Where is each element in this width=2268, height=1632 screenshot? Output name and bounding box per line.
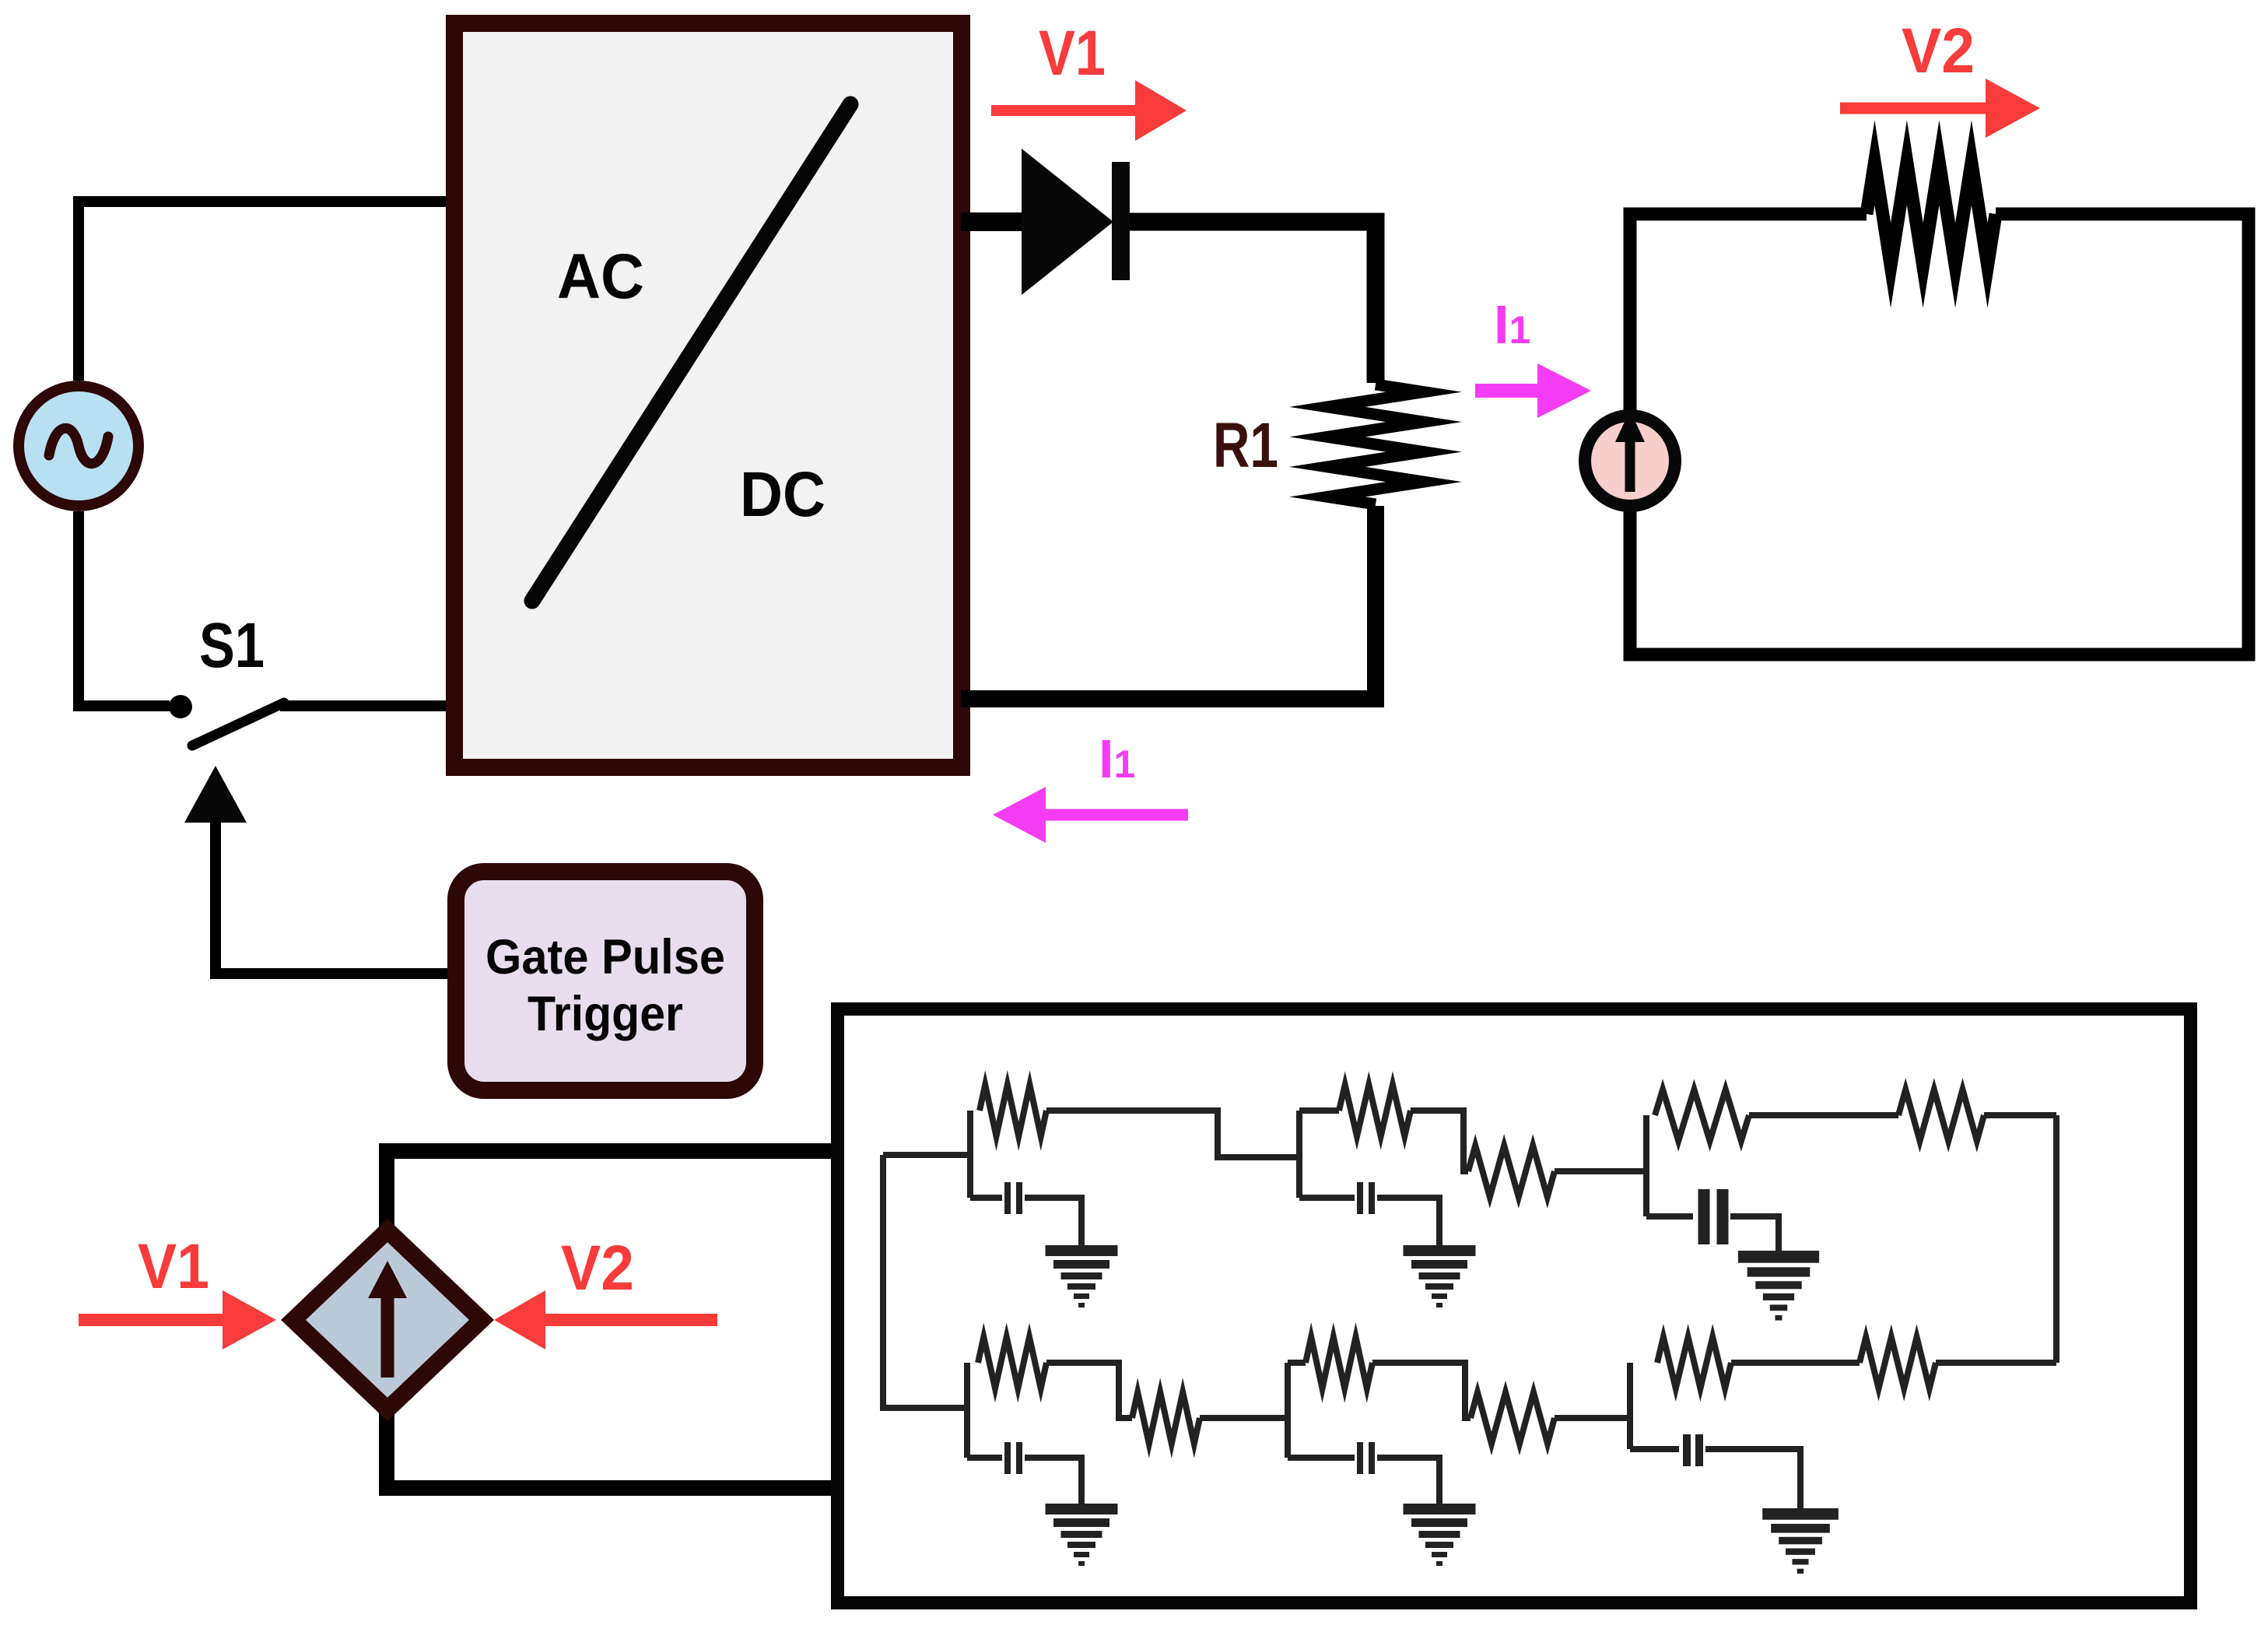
svg-text:V1: V1 — [1039, 18, 1106, 89]
wire RB1 to resistor RB12 — [1046, 1363, 1132, 1418]
wire from R1 bottom back to converter — [961, 506, 1376, 699]
wire RB23 to section B3 — [1555, 1415, 1630, 1421]
dependent current source CS1 (controlled by I1) — [1585, 416, 1675, 506]
node section B1 left — [964, 1363, 970, 1458]
node section A3 left — [1643, 1115, 1649, 1216]
resistor RA3 — [1655, 1090, 1749, 1141]
resistor RB2 — [1306, 1337, 1372, 1388]
wire RB3 to resistor RB3b — [1731, 1360, 1860, 1366]
wire from gate pulse trigger to switch — [216, 817, 455, 974]
ground GA3 — [1738, 1251, 1819, 1263]
wire RA1 to section A2 — [1046, 1111, 1299, 1157]
svg-text:V2: V2 — [561, 1233, 634, 1304]
wire right loop (top-left segment) — [1630, 214, 1867, 410]
svg-text:I1: I1 — [1099, 728, 1135, 789]
svg-text:Gate Pulse: Gate Pulse — [485, 930, 725, 984]
wire RA3 to resistor RA3b — [1749, 1112, 1898, 1118]
wire RB2 to resistor RB23 — [1372, 1363, 1471, 1418]
wire right loop (right + bottom) — [1630, 214, 2249, 655]
ground GB3 — [1762, 1508, 1839, 1520]
resistor RA1 — [980, 1085, 1046, 1136]
wire from dependent source bottom to RC network block — [387, 1401, 842, 1488]
node section B2 left — [1285, 1363, 1291, 1458]
resistor RA2 — [1339, 1085, 1411, 1136]
wire from AC source bottom to switch — [79, 511, 170, 706]
capacitor CA2 — [1299, 1195, 1355, 1201]
dependent source B1 (diamond) — [293, 1230, 482, 1409]
wire from converter DC output to diode anode — [961, 212, 1024, 231]
arrow V2 into dependent source — [541, 1314, 717, 1326]
resistor RB3 — [1657, 1337, 1731, 1388]
wire RB12 to section B2 — [1200, 1415, 1288, 1421]
capacitor CA1 — [970, 1195, 1002, 1201]
wire row-A rail to section A1 — [883, 1152, 970, 1158]
resistor RA3b — [1898, 1090, 1984, 1141]
arrow V1 into dependent source — [79, 1314, 227, 1326]
resistor RB12 (coupling) — [1132, 1392, 1200, 1444]
svg-text:DC: DC — [740, 459, 826, 530]
wire from AC source top to converter AC input — [79, 202, 455, 381]
wire RA23 to section A3 — [1555, 1168, 1646, 1174]
ground GA2 — [1404, 1245, 1476, 1256]
node section A1 left — [967, 1111, 973, 1198]
resistor RB23 (coupling) — [1471, 1392, 1555, 1444]
svg-text:I1: I1 — [1494, 294, 1530, 355]
RC ladder network block — [838, 1009, 2191, 1603]
resistor RB1 — [978, 1337, 1046, 1388]
arrow I1 return direction — [1041, 809, 1188, 821]
wire RA2 to resistor RA23 — [1411, 1111, 1468, 1171]
capacitor CB1 — [967, 1455, 1002, 1461]
resistor RA23 (coupling) — [1468, 1146, 1555, 1197]
node section B3 left — [1627, 1363, 1633, 1449]
arrow V1 direction — [991, 105, 1140, 116]
AC-DC converter block U1 — [454, 23, 962, 767]
gate pulse trigger block — [456, 872, 755, 1090]
resistor R1 — [1327, 384, 1424, 504]
ground GB2 — [1404, 1504, 1476, 1514]
resistor R2 (top of right loop) — [1867, 163, 1996, 265]
svg-text:V1: V1 — [138, 1231, 209, 1302]
resistor RB3b — [1860, 1337, 1936, 1388]
ground GB1 — [1046, 1504, 1118, 1514]
svg-text:R1: R1 — [1213, 410, 1278, 481]
svg-text:S1: S1 — [199, 610, 265, 681]
node: RC block input rail (left) — [883, 1155, 967, 1408]
converter diagonal divider — [532, 104, 850, 601]
capacitor CA3 — [1646, 1213, 1693, 1220]
node: right rail joining rows — [2053, 1115, 2059, 1363]
diode D1 — [1022, 149, 1113, 295]
arrow I1 into current source — [1475, 384, 1542, 398]
switch S1 lever — [192, 703, 284, 746]
capacitor CB2 — [1288, 1455, 1355, 1461]
svg-text:V2: V2 — [1902, 16, 1975, 86]
ground GA1 — [1046, 1245, 1118, 1256]
switch S1 pole node — [169, 695, 192, 718]
wire from diode cathode to R1 top — [1130, 222, 1376, 383]
wire RA3b to right rail — [1984, 1112, 2056, 1118]
arrow V2 direction — [1840, 103, 1990, 114]
svg-text:AC: AC — [557, 241, 644, 312]
AC voltage source VS1 — [19, 386, 138, 506]
wire from switch to converter AC input — [280, 700, 455, 711]
node section A2 left — [1296, 1111, 1302, 1198]
gate trigger arrowhead at switch — [184, 766, 247, 823]
wire from dependent source top to RC network block — [387, 1151, 842, 1239]
svg-text:Trigger: Trigger — [528, 987, 683, 1041]
capacitor CB3 — [1630, 1446, 1679, 1452]
wire RB3b to right rail — [1936, 1360, 2056, 1366]
